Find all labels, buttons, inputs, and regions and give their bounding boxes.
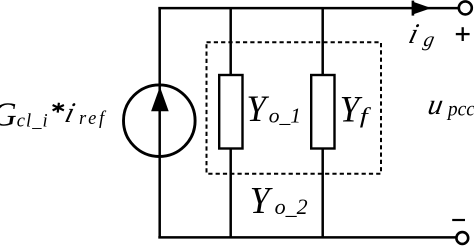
svg-text:Y: Y [250,180,273,222]
label i_g [406,18,437,51]
current source arrow [151,87,169,111]
label G_cl_i * i_ref [0,97,107,134]
polarity mark + [456,27,470,41]
arrowhead i_g on top wire [412,1,432,16]
admittance block Y_f [311,75,334,149]
wire bottom horizontal [158,236,456,239]
wire lead Y_f bottom [321,148,324,238]
admittance block Y_o_1 [219,75,242,149]
svg-text:o_2: o_2 [275,194,308,219]
current source U1 circle [124,85,196,157]
wire lead Y_o_1 top [229,8,232,76]
wire top horizontal [158,7,459,10]
wire lead Y_o_1 bottom [229,148,232,238]
label u_pcc [426,89,474,121]
svg-text:o_1: o_1 [269,103,301,127]
terminal node - (bottom right circle) [456,232,468,244]
terminal node + (top right circle) [459,1,472,14]
dashed box Y_o_2 [207,42,382,174]
label Y_f [340,89,372,130]
svg-text:cl_i: cl_i [17,111,48,131]
svg-text:pcc: pcc [446,100,474,121]
wire left vertical [158,8,161,237]
svg-text:G: G [0,97,17,134]
wire lead Y_f top [321,8,324,76]
label Y_o_2 [250,180,308,222]
label Y_o_1 [247,89,301,130]
svg-text:ref: ref [79,109,107,129]
polarity mark - [452,219,465,221]
